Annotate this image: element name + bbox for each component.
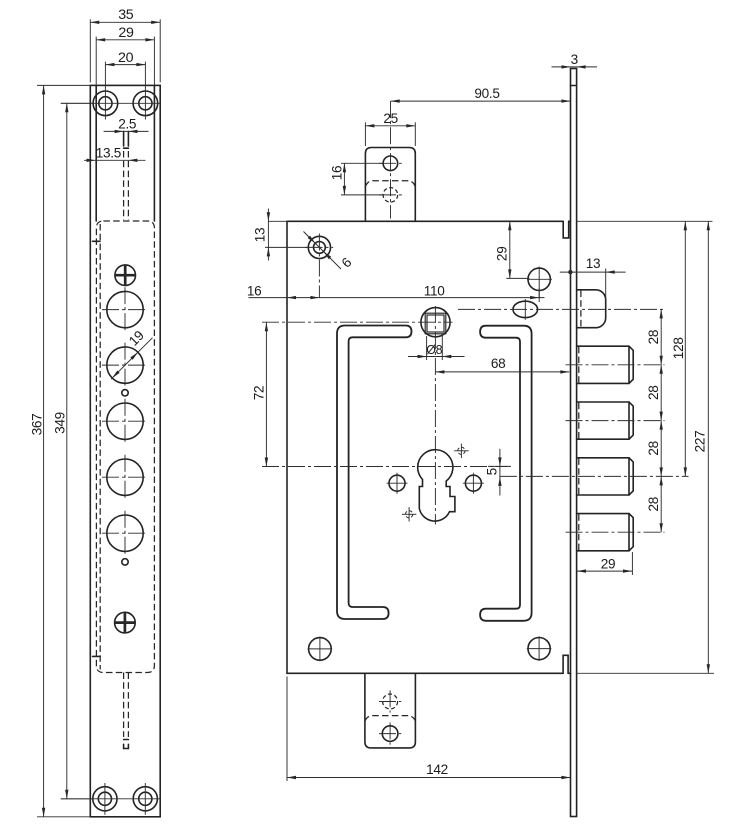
body bottom screw left <box>309 638 332 661</box>
svg-text:367: 367 <box>30 414 45 436</box>
dim 13 right <box>560 271 626 273</box>
dim 16 body / dim 110 <box>249 297 545 299</box>
cylinder fixing hole left <box>389 475 405 491</box>
phillips screw symbol upper <box>115 265 136 286</box>
keyhole horizontal centerline <box>262 466 507 468</box>
spindle square hole <box>425 313 446 334</box>
svg-text:20: 20 <box>118 50 134 66</box>
svg-text:68: 68 <box>491 356 506 371</box>
dim 16 tab <box>341 162 383 164</box>
bottom screw hole right <box>133 787 157 811</box>
svg-text:29: 29 <box>601 556 616 571</box>
cylinder axis centerline <box>458 308 665 310</box>
dim phi8 <box>426 336 428 360</box>
faceplate outer outline <box>90 85 160 816</box>
faceplate inner edge lines (top) <box>95 85 97 221</box>
faceplate weld tick <box>571 85 577 87</box>
top tab centerline <box>390 101 392 218</box>
dim 349 <box>61 102 92 104</box>
bottom screw hole left <box>93 787 117 811</box>
faceplate side bar <box>571 69 577 817</box>
oval hole <box>513 301 538 317</box>
top tab bend line hidden <box>365 181 415 187</box>
dim 13 top left <box>268 220 287 222</box>
dim 6 leader <box>304 232 342 270</box>
svg-text:90.5: 90.5 <box>474 86 499 101</box>
tumbler circle 2 <box>107 347 143 383</box>
dim 19 diameter leader <box>111 338 153 380</box>
phillips screw symbol lower <box>115 612 136 633</box>
svg-text:142: 142 <box>426 762 448 777</box>
svg-text:28: 28 <box>646 330 661 345</box>
svg-text:13.5: 13.5 <box>96 146 121 161</box>
deadbolt 3 extended centerline <box>500 475 689 477</box>
tumbler circle 5 <box>107 515 143 551</box>
svg-text:28: 28 <box>646 441 661 456</box>
cylinder fixing hole right <box>465 475 481 491</box>
bottom mounting tab <box>365 673 416 748</box>
dim 13.5 <box>84 159 146 161</box>
dim 367 <box>37 84 90 86</box>
svg-text:72: 72 <box>251 386 266 401</box>
tumbler circle 4 <box>107 459 143 495</box>
small pin circle lower <box>122 559 128 565</box>
svg-text:128: 128 <box>671 337 686 359</box>
deadbolt 2 <box>577 402 634 439</box>
svg-text:13: 13 <box>586 256 601 271</box>
dim 142 <box>286 677 288 782</box>
svg-text:35: 35 <box>118 7 134 23</box>
dim 2.5 <box>104 130 149 132</box>
dim 29 bolt <box>631 552 633 575</box>
dim 5 <box>499 449 501 496</box>
dim 72 <box>265 322 267 466</box>
top tab hole <box>383 156 398 171</box>
dim 20 <box>105 64 145 66</box>
strike box inner wall hidden line <box>99 224 101 670</box>
dim 29 top right <box>506 277 529 279</box>
svg-text:5: 5 <box>484 468 499 475</box>
body top notch <box>563 221 569 238</box>
spindle slot lower <box>123 673 125 738</box>
lever hole <box>308 236 330 258</box>
hole near faceplate top <box>528 268 550 290</box>
dim 35 <box>89 19 91 82</box>
top holes horizontal centerline <box>61 102 161 104</box>
cylinder collar profile <box>577 290 606 328</box>
dim 28 chain <box>660 309 662 532</box>
center mark lower left <box>406 511 413 518</box>
tumbler circle 1 <box>107 291 143 327</box>
bottom tab hole <box>382 726 398 742</box>
strike box tick marks <box>93 240 101 242</box>
dim 25 <box>364 122 366 146</box>
top screw hole left <box>93 91 118 116</box>
top hole vertical centerlines / 20-dim extensions <box>104 62 106 120</box>
top tab hidden hole <box>383 188 398 203</box>
body bottom screw right <box>528 638 550 660</box>
deadbolt 3 <box>577 458 634 495</box>
bottom tab bend line hidden <box>365 716 416 722</box>
center mark upper right <box>458 447 465 454</box>
spindle centerlines <box>434 306 436 525</box>
deadbolt 1 <box>577 346 634 383</box>
svg-text:16: 16 <box>329 166 344 181</box>
small pin circle upper <box>122 390 128 396</box>
svg-text:2.5: 2.5 <box>118 117 136 132</box>
svg-text:25: 25 <box>383 111 398 126</box>
top screw hole right <box>133 91 158 116</box>
deadbolt 4 <box>577 514 634 551</box>
spindle slot upper (2.5 wide) <box>123 131 125 146</box>
bottom holes horizontal centerline <box>61 798 161 800</box>
lock body outline <box>287 221 571 673</box>
dim 90.5 <box>391 100 571 102</box>
svg-text:349: 349 <box>53 412 68 434</box>
dim 128 <box>684 221 686 476</box>
dim 29 <box>95 37 97 86</box>
euro cylinder keyhole <box>418 450 455 521</box>
svg-text:28: 28 <box>646 497 661 512</box>
svg-text:29: 29 <box>495 247 510 262</box>
dim 227 <box>577 220 713 222</box>
tumbler circle 3 <box>107 403 143 439</box>
strike box hidden outline (dashed rounded rect) <box>96 221 154 673</box>
svg-text:16: 16 <box>247 284 262 299</box>
dim 68 <box>435 371 569 373</box>
svg-text:13: 13 <box>252 228 267 243</box>
top mounting tab <box>365 148 415 222</box>
svg-text:28: 28 <box>646 385 661 400</box>
spindle hole circle <box>421 308 450 337</box>
svg-text:29: 29 <box>118 25 134 41</box>
svg-text:3: 3 <box>571 52 578 67</box>
bottom tab hidden hole <box>383 694 398 709</box>
svg-text:110: 110 <box>424 284 446 299</box>
left C bracket <box>337 326 412 620</box>
dim 3 <box>552 66 598 68</box>
svg-text:Ø8: Ø8 <box>426 343 442 357</box>
right C bracket <box>480 326 531 621</box>
body bottom notch <box>563 655 568 673</box>
svg-text:227: 227 <box>693 431 708 453</box>
